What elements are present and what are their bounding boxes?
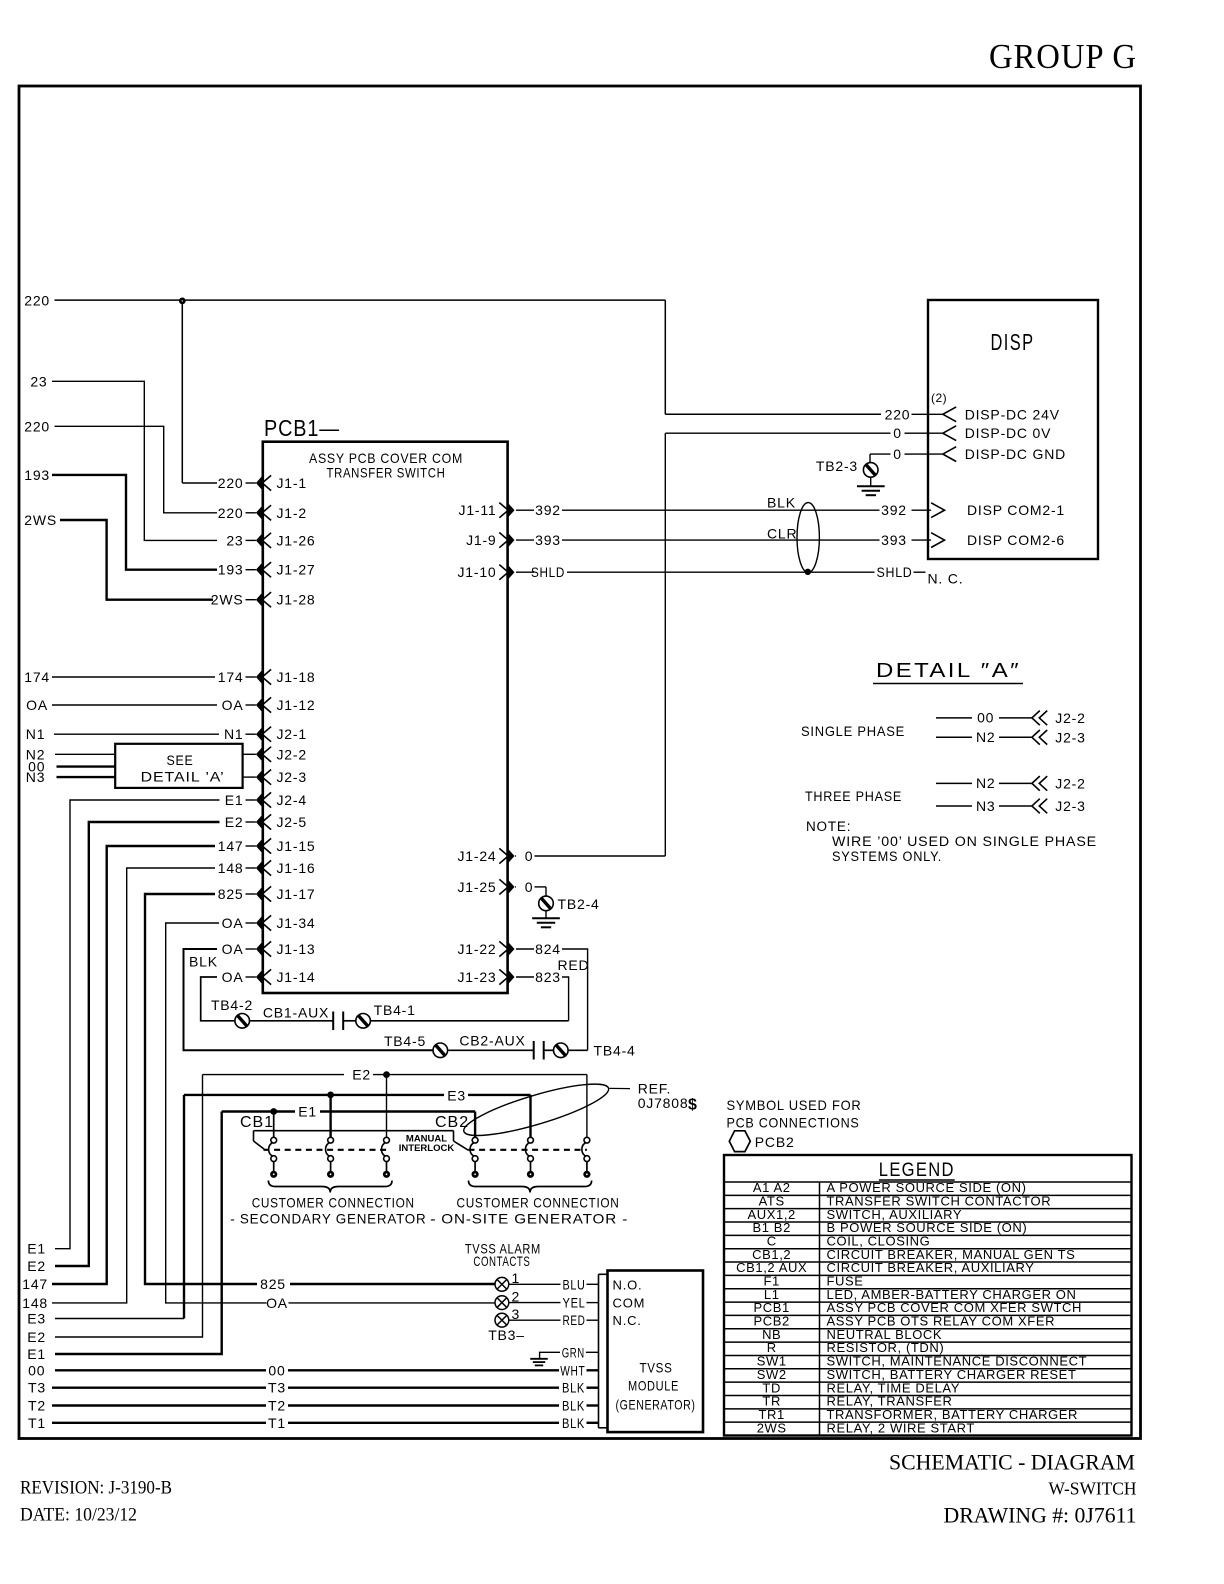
connector pin J1-23 xyxy=(457,969,560,985)
detail pin J2-2 single xyxy=(1032,710,1086,726)
svg-text:J1-13: J1-13 xyxy=(277,941,316,957)
connector pin J1-17 xyxy=(218,886,316,902)
legend row CB1,2 AUX xyxy=(724,1260,1132,1275)
svg-text:SINGLE PHASE: SINGLE PHASE xyxy=(801,723,905,739)
wire 0V net xyxy=(535,425,912,856)
svg-text:J1-2: J1-2 xyxy=(277,505,307,521)
svg-text:DETAIL ″A″: DETAIL ″A″ xyxy=(876,660,1021,682)
svg-text:00: 00 xyxy=(977,710,994,726)
wire 824 net RED xyxy=(558,949,590,1050)
svg-text:N. C.: N. C. xyxy=(928,570,964,586)
legend row CB1,2 xyxy=(724,1247,1132,1262)
svg-text:DISP-DC 24V: DISP-DC 24V xyxy=(965,406,1060,422)
breaker CB1 mechanical tie dashed xyxy=(264,1149,387,1151)
connector pin J1-16 xyxy=(218,860,316,876)
wire E1 net to CB poles xyxy=(27,1104,475,1363)
svg-text:23: 23 xyxy=(30,373,47,389)
connector pin J1-1 xyxy=(218,475,307,491)
svg-text:1: 1 xyxy=(512,1270,521,1286)
SEE DETAIL A box xyxy=(115,744,242,788)
label REF 0J7808 xyxy=(638,1081,698,1114)
svg-text:RELAY, 2 WIRE START: RELAY, 2 WIRE START xyxy=(827,1420,975,1435)
DISP pin COM2-6 xyxy=(931,532,1065,548)
svg-text:NOTE:: NOTE: xyxy=(806,819,851,834)
svg-text:T1: T1 xyxy=(268,1415,286,1431)
detail pin J2-2 three xyxy=(1032,776,1086,792)
svg-text:J1-25: J1-25 xyxy=(457,879,496,895)
svg-text:- SECONDARY GENERATOR -: - SECONDARY GENERATOR - xyxy=(230,1211,436,1227)
svg-text:N3: N3 xyxy=(26,769,46,785)
hexagon PCB2 symbol xyxy=(729,1131,750,1152)
svg-text:J1-11: J1-11 xyxy=(459,502,497,518)
legend row C xyxy=(724,1234,1132,1249)
svg-text:393: 393 xyxy=(535,532,561,548)
svg-text:J1-24: J1-24 xyxy=(457,848,496,864)
legend row B1 B2 xyxy=(724,1220,1132,1235)
svg-text:DISP COM2-1: DISP COM2-1 xyxy=(967,502,1065,518)
svg-text:T2: T2 xyxy=(28,1398,46,1414)
svg-text:TB2-3: TB2-3 xyxy=(816,458,858,474)
connector pin J2-1 xyxy=(224,726,307,742)
svg-text:- ON-SITE GENERATOR -: - ON-SITE GENERATOR - xyxy=(430,1211,628,1227)
svg-text:(2): (2) xyxy=(931,391,947,405)
svg-text:J1-34: J1-34 xyxy=(277,915,316,931)
svg-text:2WS: 2WS xyxy=(24,512,57,528)
svg-text:PCB1—: PCB1— xyxy=(264,415,340,441)
wire 0 J1-25 to TB2-4 xyxy=(535,887,547,896)
legend row SW2 xyxy=(724,1367,1132,1382)
ellipse REF 0J7808 xyxy=(460,1074,613,1145)
wire 147 bundle net xyxy=(22,846,215,1292)
svg-text:REVISION: J-3190-B: REVISION: J-3190-B xyxy=(20,1478,172,1499)
svg-text:J1-22: J1-22 xyxy=(457,941,496,957)
svg-text:220: 220 xyxy=(24,293,50,309)
svg-text:E1: E1 xyxy=(298,1104,317,1120)
svg-text:MODULE: MODULE xyxy=(628,1378,679,1394)
wire RED xyxy=(509,1313,599,1328)
svg-text:J1-12: J1-12 xyxy=(277,697,316,713)
svg-text:LEGEND: LEGEND xyxy=(879,1160,955,1181)
svg-text:BLU: BLU xyxy=(563,1277,586,1292)
svg-text:J2-2: J2-2 xyxy=(1055,776,1085,792)
connector pin J1-11 xyxy=(459,502,561,518)
TVSS contact 3 xyxy=(495,1306,520,1327)
svg-text:SHLD: SHLD xyxy=(531,564,565,580)
brace customer connection CB1 xyxy=(268,1181,392,1193)
svg-text:174: 174 xyxy=(24,669,50,685)
svg-text:2WS: 2WS xyxy=(757,1420,787,1435)
DISP block xyxy=(928,300,1098,559)
contact CB2-AUX xyxy=(448,1033,554,1060)
wire SEE box to J2-2 xyxy=(243,753,256,755)
svg-text:SCHEMATIC - DIAGRAM: SCHEMATIC - DIAGRAM xyxy=(889,1450,1135,1475)
border frame xyxy=(19,86,1141,1439)
wire 393 to DISP xyxy=(912,539,932,541)
wire T1 to BLK xyxy=(28,1415,598,1431)
svg-text:J1-9: J1-9 xyxy=(466,532,496,548)
connector pin J2-3 xyxy=(256,769,307,785)
svg-text:220: 220 xyxy=(218,505,244,521)
svg-text:220: 220 xyxy=(218,475,244,491)
connector pin J1-26 xyxy=(226,532,315,548)
svg-text:COM: COM xyxy=(613,1296,646,1311)
legend row PCB1 xyxy=(724,1300,1132,1315)
svg-text:CB1: CB1 xyxy=(240,1114,274,1131)
contact CB1-AUX xyxy=(250,1005,356,1031)
svg-text:CB2-AUX: CB2-AUX xyxy=(459,1033,525,1049)
svg-text:CB1-AUX: CB1-AUX xyxy=(263,1005,329,1021)
svg-text:SEE: SEE xyxy=(167,752,194,768)
svg-text:BLK: BLK xyxy=(562,1381,585,1396)
svg-text:E1: E1 xyxy=(27,1241,46,1257)
wire 00 feed xyxy=(28,759,115,775)
detail wire N2 J2-2 xyxy=(936,775,1032,791)
svg-text:$: $ xyxy=(688,1097,698,1114)
svg-text:392: 392 xyxy=(535,502,561,518)
svg-text:SYMBOL USED FOR: SYMBOL USED FOR xyxy=(727,1097,862,1113)
connector pin J1-13 xyxy=(222,941,316,957)
label TVSS ALARM CONTACTS xyxy=(465,1241,541,1270)
connector pin J1-12 xyxy=(222,697,316,713)
svg-text:TB4-5: TB4-5 xyxy=(384,1033,426,1049)
connector pin J1-14 xyxy=(222,969,316,985)
svg-text:INTERLOCK: INTERLOCK xyxy=(399,1143,455,1154)
connector pin J1-15 xyxy=(218,838,316,854)
connector pin J2-5 xyxy=(225,814,307,830)
svg-text:OA: OA xyxy=(26,697,48,713)
svg-text:N.O.: N.O. xyxy=(613,1277,643,1292)
wire N3 feed xyxy=(26,769,115,785)
svg-text:CUSTOMER CONNECTION: CUSTOMER CONNECTION xyxy=(457,1195,620,1211)
svg-text:OA: OA xyxy=(222,697,244,713)
svg-text:E3: E3 xyxy=(447,1087,466,1103)
DISP pin DC GND xyxy=(912,446,1067,462)
breaker CB2 pole 3 xyxy=(582,1137,591,1178)
note text xyxy=(806,819,1097,864)
breaker CB1 pole 2 xyxy=(326,1137,335,1178)
svg-text:SHLD: SHLD xyxy=(877,564,913,580)
svg-text:J1-18: J1-18 xyxy=(277,669,316,685)
legend row NB xyxy=(724,1327,1132,1342)
connector pin J1-2 xyxy=(218,505,307,521)
svg-text:392: 392 xyxy=(881,502,907,518)
svg-text:825: 825 xyxy=(218,886,244,902)
TVSS contact 1 xyxy=(495,1270,520,1291)
TVSS module block xyxy=(599,1271,704,1433)
svg-text:DISP-DC 0V: DISP-DC 0V xyxy=(965,425,1052,441)
wire SEE box to J2-3 xyxy=(243,776,256,778)
legend row R xyxy=(724,1340,1132,1355)
TVSS contact 2 xyxy=(495,1289,520,1310)
svg-text:DATE: 10/23/12: DATE: 10/23/12 xyxy=(20,1505,137,1526)
wire 174 net xyxy=(24,669,215,685)
breaker CB2 pole 2 xyxy=(525,1137,534,1178)
detail wire N3 J2-3 xyxy=(936,798,1032,814)
svg-text:BLK: BLK xyxy=(562,1416,585,1431)
terminal TB2-4 xyxy=(539,896,600,912)
svg-text:0: 0 xyxy=(893,425,902,441)
connector pin J1-28 xyxy=(211,592,316,608)
connector pin J1-18 xyxy=(218,669,316,685)
wire 392 net xyxy=(562,495,907,519)
svg-text:J1-1: J1-1 xyxy=(277,475,307,491)
detail wire 00 J2-2 xyxy=(936,710,1032,726)
svg-text:TB4-2: TB4-2 xyxy=(211,997,253,1013)
svg-text:DISP-DC GND: DISP-DC GND xyxy=(965,446,1066,462)
wire OA BLK net J1-13 to TB4-5 xyxy=(184,949,434,1050)
svg-text:J1-17: J1-17 xyxy=(277,886,316,902)
terminal TB4-1 xyxy=(356,1002,569,1028)
ground at TB2-4 xyxy=(532,911,560,928)
cable ellipse around 392 393 xyxy=(797,503,819,573)
connector pin J1-27 xyxy=(218,562,316,578)
breaker CB2 mechanical tie dashed xyxy=(469,1149,587,1151)
wire OA net to TVSS contact 2 xyxy=(166,923,495,1311)
terminal TB4-4 xyxy=(554,1043,636,1059)
svg-text:193: 193 xyxy=(218,562,244,578)
label MANUAL INTERLOCK xyxy=(399,1134,455,1155)
terminal TB2-3 xyxy=(816,458,878,477)
wire 00 to WHT xyxy=(28,1362,598,1378)
svg-text:THREE PHASE: THREE PHASE xyxy=(805,788,902,804)
wire N2 feed xyxy=(26,746,115,762)
svg-text:J2-3: J2-3 xyxy=(277,769,307,785)
svg-text:N2: N2 xyxy=(976,775,996,791)
svg-text:J1-28: J1-28 xyxy=(277,592,316,608)
svg-text:CLR: CLR xyxy=(767,526,797,542)
connector pin J1-34 xyxy=(222,915,316,931)
breaker CB2 pole 1 xyxy=(470,1137,479,1178)
ground at TB2-3 xyxy=(857,477,885,495)
svg-text:824: 824 xyxy=(535,941,561,957)
svg-text:BLK: BLK xyxy=(562,1399,585,1414)
svg-text:W-SWITCH: W-SWITCH xyxy=(1049,1479,1137,1499)
svg-text:N2: N2 xyxy=(976,729,996,745)
wire E3 net to CB poles xyxy=(27,1087,530,1326)
svg-text:00: 00 xyxy=(28,1362,45,1378)
svg-text:BLK: BLK xyxy=(767,495,796,511)
legend row AUX1,2 xyxy=(724,1207,1132,1222)
svg-text:GROUP G: GROUP G xyxy=(989,37,1137,76)
svg-text:193: 193 xyxy=(24,467,50,483)
PCB1 block xyxy=(263,442,508,993)
svg-text:825: 825 xyxy=(260,1276,286,1292)
svg-text:OA: OA xyxy=(266,1295,288,1311)
wire N1 net xyxy=(26,726,219,742)
wire OA J1-12 net xyxy=(26,697,217,713)
legend row TR xyxy=(724,1394,1132,1409)
svg-text:220: 220 xyxy=(24,418,50,434)
connector pin J1-22 xyxy=(457,941,560,957)
svg-text:174: 174 xyxy=(218,669,244,685)
svg-text:E3: E3 xyxy=(27,1311,46,1327)
svg-text:N1: N1 xyxy=(26,726,46,742)
svg-text:DETAIL ’A’: DETAIL ’A’ xyxy=(141,769,225,785)
svg-text:J1-16: J1-16 xyxy=(277,860,316,876)
svg-text:PCB2: PCB2 xyxy=(755,1134,795,1150)
svg-text:TB3–: TB3– xyxy=(488,1327,525,1343)
svg-text:0: 0 xyxy=(525,879,534,895)
leader line REF xyxy=(610,1087,631,1089)
wire YEL xyxy=(509,1296,599,1311)
svg-text:TRANSFER SWITCH: TRANSFER SWITCH xyxy=(327,465,446,481)
svg-text:WHT: WHT xyxy=(560,1363,585,1378)
svg-text:2WS: 2WS xyxy=(211,592,244,608)
connector pin J1-25 xyxy=(457,879,533,895)
wire E2 bundle net xyxy=(27,822,219,1274)
svg-text:SYSTEMS ONLY.: SYSTEMS ONLY. xyxy=(832,849,942,864)
svg-text:WIRE ’00’ USED ON SINGLE PHASE: WIRE ’00’ USED ON SINGLE PHASE xyxy=(832,834,1097,849)
svg-text:YEL: YEL xyxy=(563,1296,586,1311)
wire T2 to BLK xyxy=(28,1398,598,1414)
svg-text:J1-15: J1-15 xyxy=(277,838,316,854)
svg-text:148: 148 xyxy=(22,1295,48,1311)
wire T3 to BLK xyxy=(28,1380,598,1396)
wire 393 net xyxy=(562,526,907,549)
DISP pin DC 24V xyxy=(912,406,1060,422)
svg-text:TB2-4: TB2-4 xyxy=(558,896,600,912)
svg-text:E2: E2 xyxy=(225,814,244,830)
wire 220 top net xyxy=(24,293,910,484)
detail pin J2-3 single xyxy=(1032,730,1086,746)
svg-text:0J7808: 0J7808 xyxy=(638,1095,689,1111)
svg-text:0: 0 xyxy=(525,848,534,864)
svg-text:OA: OA xyxy=(222,941,244,957)
detail pin J2-3 three xyxy=(1032,798,1086,814)
connector pin J1-24 xyxy=(457,848,533,864)
label symbol used for PCB connections xyxy=(727,1097,862,1131)
label customer connection secondary xyxy=(230,1195,436,1227)
svg-text:DRAWING #: 0J7611: DRAWING #: 0J7611 xyxy=(944,1503,1137,1528)
svg-text:T3: T3 xyxy=(268,1380,286,1396)
legend row A1 A2 xyxy=(724,1180,1132,1195)
junction dot 220 xyxy=(179,298,186,305)
wire 2WS net xyxy=(24,512,213,600)
svg-text:E2: E2 xyxy=(27,1329,46,1345)
svg-text:PCB CONNECTIONS: PCB CONNECTIONS xyxy=(727,1115,860,1131)
svg-text:N.C.: N.C. xyxy=(613,1313,642,1328)
svg-text:J2-1: J2-1 xyxy=(277,726,307,742)
breaker CB1 pole 1 xyxy=(269,1137,278,1178)
connector pin J1-10 xyxy=(457,564,565,580)
legend row TD xyxy=(724,1380,1132,1395)
connector pin J2-4 xyxy=(225,792,307,808)
svg-text:J2-3: J2-3 xyxy=(1055,798,1085,814)
svg-text:J2-3: J2-3 xyxy=(1055,730,1085,746)
breaker CB1 pole 3 xyxy=(381,1137,390,1178)
svg-text:T1: T1 xyxy=(28,1415,46,1431)
wire BLU xyxy=(509,1277,599,1292)
svg-text:N3: N3 xyxy=(976,798,996,814)
svg-text:00: 00 xyxy=(268,1362,285,1378)
svg-text:J1-27: J1-27 xyxy=(277,562,316,578)
wire 392 to DISP xyxy=(912,509,932,511)
wire OA net J1-14 to TB4-2 xyxy=(201,977,235,1021)
svg-text:147: 147 xyxy=(22,1276,48,1292)
junction dot E3 CB1 xyxy=(327,1092,334,1099)
svg-text:J2-4: J2-4 xyxy=(277,792,307,808)
wire E2 net to CB poles xyxy=(27,1067,587,1346)
svg-text:J1-23: J1-23 xyxy=(457,969,496,985)
DETAIL A title xyxy=(873,660,1023,684)
svg-text:148: 148 xyxy=(218,860,244,876)
legend row F1 xyxy=(724,1274,1132,1289)
terminal TB4-2 xyxy=(211,997,253,1028)
wire 220 second net xyxy=(24,418,217,513)
svg-text:T3: T3 xyxy=(28,1380,46,1396)
svg-text:TB4-4: TB4-4 xyxy=(594,1043,636,1059)
junction dot E1 CB1 xyxy=(270,1108,277,1115)
svg-text:DISP: DISP xyxy=(991,329,1035,355)
junction dot E2 CB1 xyxy=(383,1071,390,1078)
terminal TB4-5 xyxy=(384,1033,448,1058)
wire 823 net xyxy=(562,977,569,1021)
svg-text:220: 220 xyxy=(885,406,911,422)
svg-text:CUSTOMER CONNECTION: CUSTOMER CONNECTION xyxy=(252,1195,415,1211)
wire 193 net xyxy=(24,467,217,570)
svg-text:J2-2: J2-2 xyxy=(1055,710,1085,726)
svg-text:147: 147 xyxy=(218,838,244,854)
label customer connection on-site xyxy=(430,1195,628,1227)
legend row ATS xyxy=(724,1193,1132,1208)
detail wire N2 J2-3 xyxy=(936,729,1032,745)
svg-text:CONTACTS: CONTACTS xyxy=(473,1253,530,1269)
svg-text:GRN: GRN xyxy=(562,1345,585,1360)
svg-text:J2-2: J2-2 xyxy=(277,746,307,762)
svg-text:TB4-1: TB4-1 xyxy=(374,1002,416,1018)
svg-text:OA: OA xyxy=(222,915,244,931)
legend row PCB2 xyxy=(724,1314,1132,1329)
wire SHLD net xyxy=(567,564,963,586)
DISP pin DC 0V xyxy=(912,425,1052,441)
legend row TR1 xyxy=(724,1407,1132,1422)
PCB1 title text xyxy=(309,450,463,481)
legend row SW1 xyxy=(724,1354,1132,1369)
svg-text:J1-26: J1-26 xyxy=(277,532,316,548)
svg-text:J1-14: J1-14 xyxy=(277,969,316,985)
wire 0 GND net with TB2-3 xyxy=(870,446,912,462)
legend row L1 xyxy=(724,1287,1132,1302)
svg-text:E2: E2 xyxy=(27,1258,46,1274)
svg-text:TVSS: TVSS xyxy=(640,1360,673,1376)
svg-text:J2-5: J2-5 xyxy=(277,814,307,830)
svg-text:BLK: BLK xyxy=(189,954,218,970)
legend table xyxy=(724,1155,1132,1436)
DISP pin COM2-1 xyxy=(931,502,1065,518)
connector pin J2-2 xyxy=(256,746,307,762)
connector pin J1-9 xyxy=(466,532,561,548)
svg-text:393: 393 xyxy=(881,532,907,548)
legend row 2WS xyxy=(757,1420,975,1435)
wire 825 net to TVSS contact 1 xyxy=(145,894,495,1292)
wire E1 bundle net xyxy=(27,800,219,1257)
svg-text:E1: E1 xyxy=(27,1346,46,1362)
wire 23 net xyxy=(30,373,217,540)
svg-text:(GENERATOR): (GENERATOR) xyxy=(616,1397,696,1413)
svg-text:0: 0 xyxy=(893,446,902,462)
ground GRN xyxy=(530,1345,598,1365)
wire 148 bundle net xyxy=(22,868,215,1311)
brace customer connection CB2 xyxy=(469,1181,592,1193)
svg-text:DISP COM2-6: DISP COM2-6 xyxy=(967,532,1065,548)
svg-text:OA: OA xyxy=(222,969,244,985)
junction dot SHLD at cable shield xyxy=(805,569,811,575)
svg-text:RED: RED xyxy=(558,957,590,973)
svg-text:E1: E1 xyxy=(225,792,244,808)
svg-text:N1: N1 xyxy=(224,726,244,742)
manual interlock bar xyxy=(254,1131,469,1151)
svg-text:RED: RED xyxy=(563,1313,586,1328)
